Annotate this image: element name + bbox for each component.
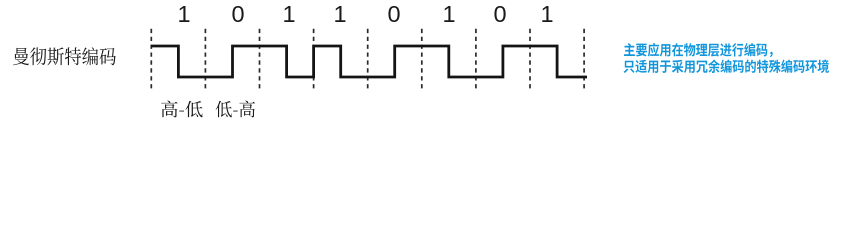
svg-text:0: 0 xyxy=(493,1,506,27)
svg-text:0: 0 xyxy=(231,1,244,27)
svg-text:1: 1 xyxy=(442,1,455,27)
svg-text:1: 1 xyxy=(540,1,553,27)
svg-text:1: 1 xyxy=(177,1,190,27)
svg-text:1: 1 xyxy=(333,1,346,27)
svg-text:1: 1 xyxy=(282,1,295,27)
svg-text:0: 0 xyxy=(387,1,400,27)
